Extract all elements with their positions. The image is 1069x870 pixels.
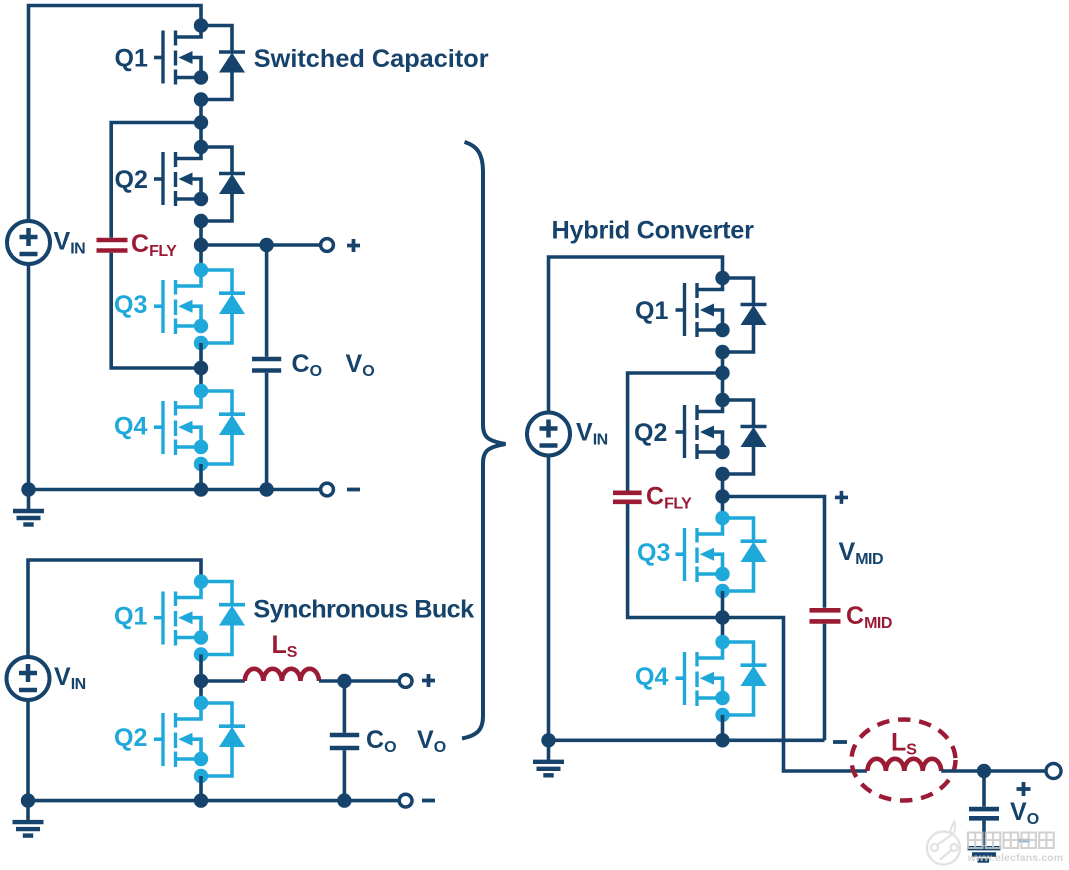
wire: Q3 to node C <box>199 343 203 368</box>
wire: CMID bottom to ground rail (hybrid) <box>823 624 827 741</box>
svg-text:Q4: Q4 <box>114 413 147 441</box>
node: CO top dot (buck) <box>337 674 351 688</box>
svg-text:Q1: Q1 <box>635 297 668 325</box>
node A junction dot <box>194 115 208 129</box>
label: - at CMID bottom (hybrid) <box>833 740 847 744</box>
wire: node B to + terminal <box>201 243 319 247</box>
svg-text:CFLY: CFLY <box>131 230 177 260</box>
transistor Q2 (hybrid) <box>634 393 767 481</box>
capacitor CO (buck) <box>330 681 396 801</box>
wire: node B to Q3 drain <box>199 245 203 270</box>
node B junction dot (output + node) <box>194 238 208 252</box>
svg-text:VO: VO <box>417 726 446 756</box>
node: ground rail mid dot <box>194 482 208 496</box>
ground (hybrid) <box>533 740 564 775</box>
svg-text:Q2: Q2 <box>114 724 147 752</box>
svg-text:Q3: Q3 <box>637 539 670 567</box>
ground (hybrid output) <box>968 848 1001 860</box>
node H2 junction dot (hybrid) <box>715 489 729 503</box>
ground (switched capacitor) <box>13 490 44 525</box>
wire: ground rail (buck) <box>28 799 398 803</box>
svg-text:Switched Capacitor: Switched Capacitor <box>254 45 489 73</box>
label: + at VO (hybrid) <box>1017 782 1031 796</box>
svg-text:LS: LS <box>272 631 298 661</box>
wire: Vin top rail to Q1 drain <box>29 6 202 222</box>
svg-text:VMID: VMID <box>839 538 884 568</box>
node: ground rail left dot (hybrid) <box>541 733 555 747</box>
node: CO bottom dot (buck) <box>337 793 351 807</box>
transistor Q3 (hybrid) <box>637 511 767 598</box>
wire: node H1 to CFLY top (hybrid) <box>628 373 723 491</box>
wire: Q4 to ground rail (hybrid) <box>721 715 725 740</box>
wire: switch node to Q2 drain (buck) <box>199 681 203 703</box>
brace grouping the two converters <box>462 142 506 739</box>
wire: node H3 to Q4 drain (hybrid) <box>721 618 725 643</box>
node: CO top junction dot <box>259 238 273 252</box>
svg-text:Q2: Q2 <box>634 419 667 447</box>
wire: node H2 to Q3 drain (hybrid) <box>721 497 725 519</box>
node: output dot (hybrid) <box>977 764 991 778</box>
transistor Q4 (hybrid) <box>635 635 767 722</box>
wire: Q3 to node H3 (hybrid) <box>721 591 725 618</box>
transistor Q3 (switched capacitor) <box>114 263 245 350</box>
inductor LS (buck) <box>245 631 319 681</box>
wire: VIN bottom to ground rail (buck) <box>26 701 30 801</box>
svg-text:CMID: CMID <box>846 602 892 632</box>
svg-text:VIN: VIN <box>576 419 608 449</box>
svg-text:VO: VO <box>1010 798 1039 828</box>
node H3 junction dot (hybrid) <box>715 610 729 624</box>
terminal: - output (switched capacitor) <box>321 483 360 496</box>
voltage source VIN (switched capacitor) <box>7 221 85 264</box>
terminal: + output (switched capacitor) <box>321 239 360 252</box>
capacitor CFLY (switched capacitor) <box>97 230 178 260</box>
wire: node C to Q4 drain <box>199 368 203 391</box>
wire: node H2 to VMID branch (hybrid) <box>723 497 825 608</box>
svg-text:VIN: VIN <box>54 228 86 258</box>
transistor Q2 (buck) <box>114 696 245 783</box>
svg-text:VO: VO <box>346 350 375 380</box>
wire: Q1 to node H1 (hybrid) <box>721 352 725 373</box>
svg-text:CO: CO <box>366 726 396 756</box>
node: ground rail left dot (buck) <box>21 793 35 807</box>
node C junction dot <box>194 361 208 375</box>
capacitor CO (hybrid output) <box>969 771 999 846</box>
svg-text:Q4: Q4 <box>635 663 668 691</box>
transistor Q1 (hybrid) <box>635 271 767 359</box>
node: ground rail left dot <box>21 482 35 496</box>
transistor Q1 (switched capacitor) <box>115 18 246 106</box>
wire: switch node to inductor (buck) <box>201 679 245 683</box>
node: CO bottom dot <box>259 482 273 496</box>
label: + at VMID (hybrid) <box>835 491 848 504</box>
wire: Q2 to node B <box>199 221 203 245</box>
wire: Q4 to ground rail <box>199 464 203 490</box>
svg-text:Hybrid Converter: Hybrid Converter <box>552 217 755 245</box>
wire: VIN bottom to ground rail <box>27 264 31 490</box>
svg-text:CO: CO <box>292 350 322 380</box>
terminal: + output (buck) <box>399 674 435 687</box>
wire: CFLY bottom to node H3 (hybrid) <box>628 504 723 618</box>
wire: Q2 to node H2 (hybrid) <box>721 474 725 497</box>
wire: ground rail (hybrid) <box>549 738 825 742</box>
svg-text:CFLY: CFLY <box>646 483 692 513</box>
capacitor CMID (hybrid) <box>810 602 892 632</box>
svg-text:Q3: Q3 <box>114 291 147 319</box>
wire: node H1 to Q2 drain (hybrid) <box>721 373 725 400</box>
wire: ground rail (switched capacitor) <box>29 488 320 492</box>
svg-text:Q1: Q1 <box>114 603 147 631</box>
node: ground rail mid dot (buck) <box>194 793 208 807</box>
wire: Q1 to switch node (buck) <box>199 655 203 682</box>
node H1 junction dot (hybrid) <box>715 366 729 380</box>
svg-text:VIN: VIN <box>54 663 86 693</box>
transistor Q1 (buck) <box>114 574 245 661</box>
transistor Q4 (switched capacitor) <box>114 384 245 471</box>
transistor Q2 (switched capacitor) <box>115 140 246 228</box>
node: switch node dot (buck) <box>194 674 208 688</box>
wire: Q2 to ground rail (buck) <box>199 776 203 801</box>
wire: node H3 to inductor (hybrid switch wire) <box>723 618 868 772</box>
terminal: output circle (hybrid) <box>1046 764 1061 779</box>
voltage source VIN (hybrid) <box>527 413 608 456</box>
inductor LS (hybrid) <box>867 729 941 772</box>
wire: Vin top rail to Q1 drain (buck) <box>28 560 201 657</box>
wire: node A to CFLY top <box>111 123 201 238</box>
node: ground rail mid dot (hybrid) <box>715 733 729 747</box>
wire: CFLY bottom to node C <box>111 253 201 368</box>
capacitor CO (switched capacitor) <box>252 245 322 490</box>
wire: VIN bottom to ground (hybrid) <box>547 456 551 740</box>
label: faint - at VO (hybrid) <box>1019 839 1031 843</box>
svg-text:Q2: Q2 <box>115 166 148 194</box>
capacitor CFLY (hybrid) <box>613 483 692 513</box>
svg-text:www.elecfans.com: www.elecfans.com <box>967 853 1064 864</box>
watermark elecfans logo and text <box>927 822 1063 865</box>
wire: Q1 to node A <box>199 100 203 123</box>
dashed highlight ellipse around LS (hybrid) <box>852 720 956 801</box>
wire: inductor to + terminal (buck) <box>319 679 398 683</box>
ground (buck) <box>13 801 44 836</box>
wire: inductor to output terminal (hybrid) <box>941 769 1045 773</box>
svg-text:Synchronous Buck: Synchronous Buck <box>253 596 475 624</box>
voltage source VIN (buck) <box>7 657 86 700</box>
svg-text:Q1: Q1 <box>115 45 148 73</box>
terminal: - output (buck) <box>399 794 435 807</box>
wire: node A to Q2 drain <box>199 123 203 148</box>
wire: Vin top rail to Q1 drain (hybrid) <box>549 257 723 412</box>
svg-text:LS: LS <box>891 729 917 759</box>
